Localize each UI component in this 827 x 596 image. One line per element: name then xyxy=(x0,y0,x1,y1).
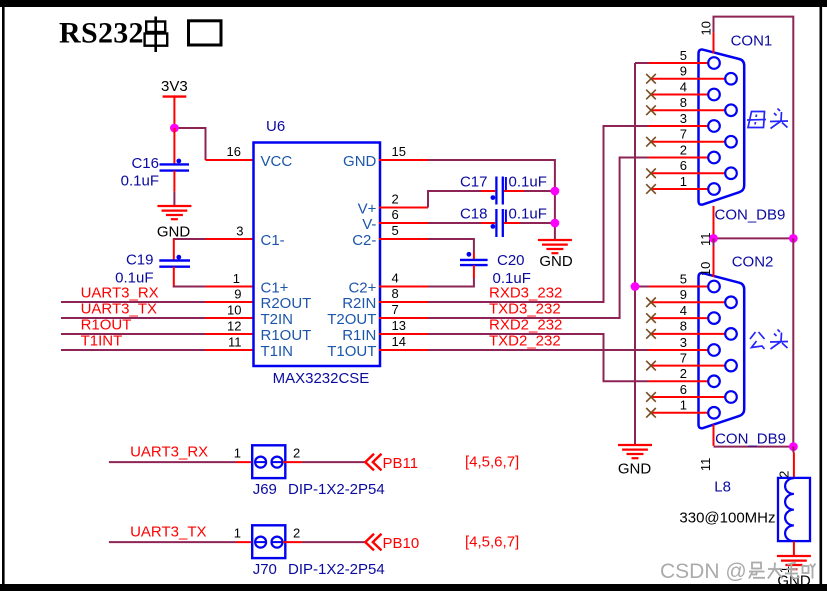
svg-text:TXD2_232: TXD2_232 xyxy=(489,333,561,350)
svg-text:[4,5,6,7]: [4,5,6,7] xyxy=(465,534,519,551)
svg-text:VCC: VCC xyxy=(261,153,293,170)
pin 2 of CON1 xyxy=(649,142,720,163)
svg-text:330@100MHz: 330@100MHz xyxy=(679,510,775,527)
svg-text:RS232: RS232 xyxy=(59,17,144,50)
wire CON2 pin11 row xyxy=(714,446,794,448)
svg-text:9: 9 xyxy=(680,287,687,302)
svg-text:10: 10 xyxy=(699,21,714,35)
wire UART3_TX xyxy=(61,317,206,319)
pin 11 of CON2 xyxy=(698,425,714,472)
capacitor C16 xyxy=(121,155,189,190)
wire TXD3_232 to CON1 pin2 xyxy=(428,158,649,319)
pin 1 of CON2 xyxy=(646,398,720,419)
wire loop to L8 xyxy=(792,447,794,453)
title glyph 串 xyxy=(145,17,168,53)
svg-text:11: 11 xyxy=(228,335,242,350)
ground GND under C16 xyxy=(157,206,192,241)
pin 5 stub xyxy=(379,223,428,239)
pin 4 stub xyxy=(379,271,428,287)
svg-text:4: 4 xyxy=(392,271,399,286)
pin 10 of CON2 xyxy=(713,238,715,246)
svg-text:C16: C16 xyxy=(131,155,159,172)
svg-text:12: 12 xyxy=(227,319,241,334)
pin 15 stub xyxy=(379,144,428,160)
connector J70 body xyxy=(252,525,285,558)
wire V- to C18 xyxy=(428,222,481,224)
wire CON1 pin5 to CON2 pin5 (GND rail) xyxy=(634,63,636,287)
wire C18 to GND rail xyxy=(504,222,520,224)
junction CON2 pin5 xyxy=(631,282,640,291)
pin 3 of CON2 xyxy=(649,335,720,356)
junction C17-GND xyxy=(551,187,560,196)
title glyph 口 xyxy=(189,21,222,45)
svg-text:5: 5 xyxy=(680,271,687,286)
capacitor C18 xyxy=(460,206,547,237)
pin 5 of CON1 xyxy=(649,48,720,69)
svg-text:C1-: C1- xyxy=(261,232,285,249)
svg-text:1: 1 xyxy=(680,398,687,413)
svg-text:RXD2_232: RXD2_232 xyxy=(489,317,562,334)
svg-text:T2IN: T2IN xyxy=(261,311,294,328)
junction CON2 pin11 right xyxy=(789,442,798,451)
svg-text:CON_DB9: CON_DB9 xyxy=(715,431,786,448)
svg-text:T1OUT: T1OUT xyxy=(327,343,376,360)
junction CON1 pin11 xyxy=(709,234,718,243)
svg-text:GND: GND xyxy=(539,253,573,270)
wire T1INT xyxy=(61,349,206,351)
svg-text:6: 6 xyxy=(680,158,687,173)
svg-text:V-: V- xyxy=(362,216,376,233)
pin 11 of CON1 xyxy=(698,206,714,246)
pin 12 stub xyxy=(206,319,255,335)
svg-text:7: 7 xyxy=(392,302,399,317)
pin 16 VCC stub xyxy=(206,144,255,160)
wire RXD2_232 to CON2 pin2 xyxy=(428,334,649,381)
label 公头 xyxy=(750,330,788,350)
svg-text:0.1uF: 0.1uF xyxy=(509,206,547,223)
svg-text:3: 3 xyxy=(680,111,687,126)
svg-text:3V3: 3V3 xyxy=(161,78,188,95)
svg-text:10: 10 xyxy=(698,262,713,276)
svg-text:6: 6 xyxy=(680,382,687,397)
svg-text:DIP-1X2-2P54: DIP-1X2-2P54 xyxy=(288,481,385,498)
svg-text:C2-: C2- xyxy=(352,232,376,249)
svg-text:9: 9 xyxy=(234,287,241,302)
wire R1OUT xyxy=(61,333,206,335)
svg-text:UART3_RX: UART3_RX xyxy=(130,444,208,461)
svg-text:R2OUT: R2OUT xyxy=(261,295,312,312)
pin 9 of CON2 xyxy=(646,287,737,308)
svg-text:4: 4 xyxy=(680,79,687,94)
svg-text:TXD3_232: TXD3_232 xyxy=(489,301,561,318)
svg-text:CON1: CON1 xyxy=(731,33,773,50)
pin 14 stub xyxy=(379,334,428,350)
pin 10 stub xyxy=(206,303,255,319)
svg-text:0.1uF: 0.1uF xyxy=(121,173,159,190)
connector CON1 body xyxy=(699,50,745,205)
wire CON1 pin10 loop xyxy=(714,17,794,239)
svg-text:1: 1 xyxy=(680,174,687,189)
svg-text:5: 5 xyxy=(392,223,399,238)
svg-text:15: 15 xyxy=(392,144,406,159)
svg-text:8: 8 xyxy=(392,286,399,301)
ground GND under CON2 xyxy=(618,445,652,478)
pin 1 C1+ stub xyxy=(206,271,255,287)
svg-text:C17: C17 xyxy=(460,173,488,190)
svg-text:8: 8 xyxy=(680,319,687,334)
svg-text:GND: GND xyxy=(618,461,652,478)
svg-text:CON_DB9: CON_DB9 xyxy=(715,207,786,224)
wire J70 to PB10 xyxy=(283,541,302,543)
wire 3V3 to C16 xyxy=(173,128,175,164)
pin 8 stub xyxy=(379,286,428,302)
junction loop right xyxy=(789,234,798,243)
svg-text:[4,5,6,7]: [4,5,6,7] xyxy=(465,454,519,471)
svg-text:4: 4 xyxy=(680,303,687,318)
svg-text:10: 10 xyxy=(227,303,241,318)
svg-text:RXD3_232: RXD3_232 xyxy=(489,285,562,302)
connector CON2 body xyxy=(699,273,745,428)
wire UART3_TX to J70 xyxy=(109,541,236,543)
svg-text:U6: U6 xyxy=(266,118,285,135)
wire CON2 pin5 to GND xyxy=(634,287,636,445)
svg-text:1: 1 xyxy=(234,526,241,541)
svg-text:11: 11 xyxy=(698,458,713,472)
pin 13 stub xyxy=(379,318,428,334)
capacitor C19 xyxy=(115,252,190,287)
pin 10 of CON1 xyxy=(699,21,714,53)
svg-text:PB10: PB10 xyxy=(383,535,420,552)
svg-text:J70: J70 xyxy=(253,561,277,578)
svg-text:C20: C20 xyxy=(497,252,525,269)
svg-text:MAX3232CSE: MAX3232CSE xyxy=(273,370,370,387)
pin 1 of CON1 xyxy=(646,174,720,195)
svg-text:16: 16 xyxy=(227,144,241,159)
svg-text:1: 1 xyxy=(234,446,241,461)
svg-text:3: 3 xyxy=(236,224,243,239)
junction 3V3 node xyxy=(170,124,179,133)
svg-text:7: 7 xyxy=(680,127,687,142)
svg-text:R1OUT: R1OUT xyxy=(81,317,132,334)
svg-text:5: 5 xyxy=(680,48,687,63)
pin 9 stub xyxy=(206,287,255,303)
svg-text:14: 14 xyxy=(392,334,406,349)
svg-text:CSDN @: CSDN @ xyxy=(660,560,747,583)
svg-text:C1+: C1+ xyxy=(261,280,289,297)
pin 3 of CON1 xyxy=(649,111,720,132)
pin 2 of L8 xyxy=(777,453,794,481)
svg-text:UART3_TX: UART3_TX xyxy=(130,524,206,541)
svg-text:J69: J69 xyxy=(253,481,277,498)
pin 4 of CON2 xyxy=(646,303,720,324)
power 3V3 xyxy=(161,78,188,128)
wire RXD3_232 to CON1 pin3 xyxy=(428,126,649,302)
svg-text:GND: GND xyxy=(157,224,191,241)
svg-text:C19: C19 xyxy=(126,252,154,269)
svg-text:8: 8 xyxy=(680,95,687,110)
wire pin15 to GND rail xyxy=(428,160,555,240)
svg-text:6: 6 xyxy=(392,207,399,222)
svg-text:R1OUT: R1OUT xyxy=(261,327,312,344)
wire right loop vertical xyxy=(792,238,794,446)
svg-text:1: 1 xyxy=(233,271,240,286)
svg-text:13: 13 xyxy=(392,318,406,333)
connector J69 body xyxy=(252,445,285,478)
wire V+ to C17 xyxy=(428,191,481,208)
svg-text:2: 2 xyxy=(392,192,399,207)
pin 6 stub xyxy=(379,207,428,223)
op-amp U6 MAX3232CSE body xyxy=(254,118,381,387)
ground GND under C17 C18 xyxy=(538,240,573,270)
wire CON1 pin11 to loop xyxy=(714,237,794,239)
svg-text:CON2: CON2 xyxy=(732,254,774,271)
inductor L8 xyxy=(679,478,810,541)
pin 8 of CON2 xyxy=(646,319,737,340)
svg-text:9: 9 xyxy=(680,64,687,79)
pin 7 of CON2 xyxy=(646,350,737,371)
svg-text:UART3_TX: UART3_TX xyxy=(81,301,157,318)
svg-text:3: 3 xyxy=(680,335,687,350)
svg-text:T1INT: T1INT xyxy=(81,333,123,350)
svg-text:UART3_RX: UART3_RX xyxy=(81,285,159,302)
ground GND under L8 xyxy=(777,556,811,590)
pin 9 of CON1 xyxy=(646,64,737,85)
svg-text:0.1uF: 0.1uF xyxy=(509,173,547,190)
label 母头 xyxy=(747,109,788,129)
svg-text:V+: V+ xyxy=(358,201,377,218)
wire C2- to C20 xyxy=(428,239,474,253)
svg-text:T2OUT: T2OUT xyxy=(327,311,376,328)
pin 7 stub xyxy=(379,302,428,318)
wire C17 to GND rail xyxy=(504,190,524,192)
wire VCC elbow xyxy=(174,128,205,160)
svg-text:GND: GND xyxy=(343,153,377,170)
capacitor C17 xyxy=(460,173,547,204)
port PB11 xyxy=(365,454,418,472)
pin 8 of CON1 xyxy=(646,95,737,116)
svg-text:2: 2 xyxy=(293,526,300,541)
svg-text:GND: GND xyxy=(777,573,811,590)
svg-text:2: 2 xyxy=(680,366,687,381)
pin 4 of CON1 xyxy=(646,79,720,100)
capacitor C20 xyxy=(460,252,531,287)
svg-text:PB11: PB11 xyxy=(383,455,419,472)
pin 1 of L8 xyxy=(777,541,794,573)
wire UART3_RX to J69 xyxy=(109,461,236,463)
svg-text:L8: L8 xyxy=(714,479,731,496)
svg-text:T1IN: T1IN xyxy=(261,343,294,360)
pin 3 C1- stub xyxy=(206,224,255,240)
wire C1- to C19 xyxy=(173,238,206,240)
pin 2 of CON2 xyxy=(649,366,720,387)
wire J69 to PB11 xyxy=(283,461,302,463)
wire C19 to C1+ xyxy=(173,267,175,288)
pin 6 of CON1 xyxy=(646,158,737,179)
wire C16 to GND xyxy=(173,171,175,192)
svg-text:2: 2 xyxy=(680,142,687,157)
svg-text:R1IN: R1IN xyxy=(342,327,376,344)
wire UART3_RX xyxy=(61,301,206,303)
pin 2 stub xyxy=(379,192,428,208)
port PB10 xyxy=(365,534,419,552)
wire TXD2_232 to CON2 pin3 xyxy=(428,349,649,351)
svg-text:2: 2 xyxy=(777,471,792,478)
svg-text:7: 7 xyxy=(680,350,687,365)
pin 5 of CON2 xyxy=(649,271,720,292)
svg-text:C2+: C2+ xyxy=(348,280,376,297)
pin 7 of CON1 xyxy=(646,127,737,148)
wire C20 to C2+ xyxy=(473,265,475,278)
pin 6 of CON2 xyxy=(646,382,737,403)
svg-text:C18: C18 xyxy=(460,206,488,223)
junction C18-GND xyxy=(551,219,560,228)
svg-text:DIP-1X2-2P54: DIP-1X2-2P54 xyxy=(288,561,385,578)
svg-text:2: 2 xyxy=(293,446,300,461)
svg-text:R2IN: R2IN xyxy=(342,295,376,312)
pin 11 stub xyxy=(206,335,255,351)
